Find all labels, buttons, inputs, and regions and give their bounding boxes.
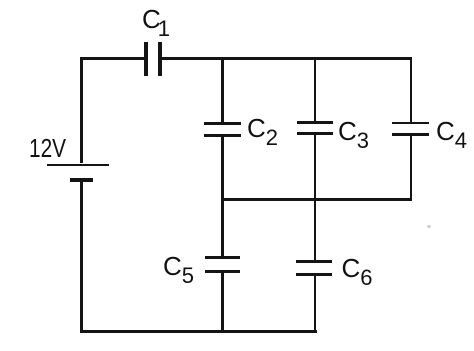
wire bottom (bottom-left corner to C6 branch) bbox=[80, 330, 317, 333]
capacitor C6 bottom plate bbox=[296, 273, 332, 276]
capacitor C2 bottom plate bbox=[204, 134, 241, 137]
label 12V bbox=[29, 135, 66, 161]
capacitor C3 top plate bbox=[297, 121, 333, 124]
wire C2 branch upper (top wire down to C2) bbox=[221, 60, 224, 122]
capacitor C2 top plate bbox=[204, 122, 241, 125]
wire left lower segment (battery down to bottom-left corner) bbox=[80, 182, 83, 332]
wire top-left segment (battery + to C1 left plate) bbox=[80, 57, 144, 60]
capacitor C5 top plate bbox=[205, 256, 241, 259]
wire C6 branch lower (C6 down to bottom wire end) bbox=[314, 276, 317, 333]
wire C2/C5 branch middle (C2 through mid-wire node to C5) bbox=[221, 137, 224, 256]
wire C4 branch upper (top-right corner down to C4) bbox=[410, 60, 413, 122]
capacitor C4 bottom plate bbox=[392, 133, 429, 136]
wire C3/C6 branch middle (C3 through mid-wire node to C6) bbox=[314, 135, 317, 259]
capacitor C6 top plate bbox=[296, 260, 332, 263]
wire C5 branch lower (C5 down to bottom wire) bbox=[221, 273, 224, 332]
wire left upper segment (top-left corner down to battery) bbox=[80, 57, 83, 163]
wire top segment (C1 right plate to top-right corner) bbox=[162, 57, 413, 60]
label C2 bbox=[247, 115, 278, 141]
capacitor C1 left plate bbox=[144, 42, 148, 76]
label C6 bbox=[342, 255, 373, 281]
label C4 bbox=[436, 118, 467, 144]
capacitor C4 top plate bbox=[392, 122, 429, 125]
battery positive long plate bbox=[47, 164, 109, 167]
wire C4 branch lower (C4 down to middle wire right corner) bbox=[410, 136, 413, 201]
capacitor C3 bottom plate bbox=[297, 132, 333, 135]
label C3 bbox=[338, 118, 369, 144]
capacitor C5 bottom plate bbox=[205, 270, 241, 273]
battery negative short plate bbox=[70, 178, 93, 182]
label C1 bbox=[142, 6, 170, 32]
label C5 bbox=[163, 253, 194, 279]
capacitor C1 right plate bbox=[158, 42, 162, 76]
wire middle (C2 branch node across to C4 branch corner) bbox=[221, 198, 412, 201]
wire C3 branch upper (top wire down to C3) bbox=[314, 60, 317, 121]
